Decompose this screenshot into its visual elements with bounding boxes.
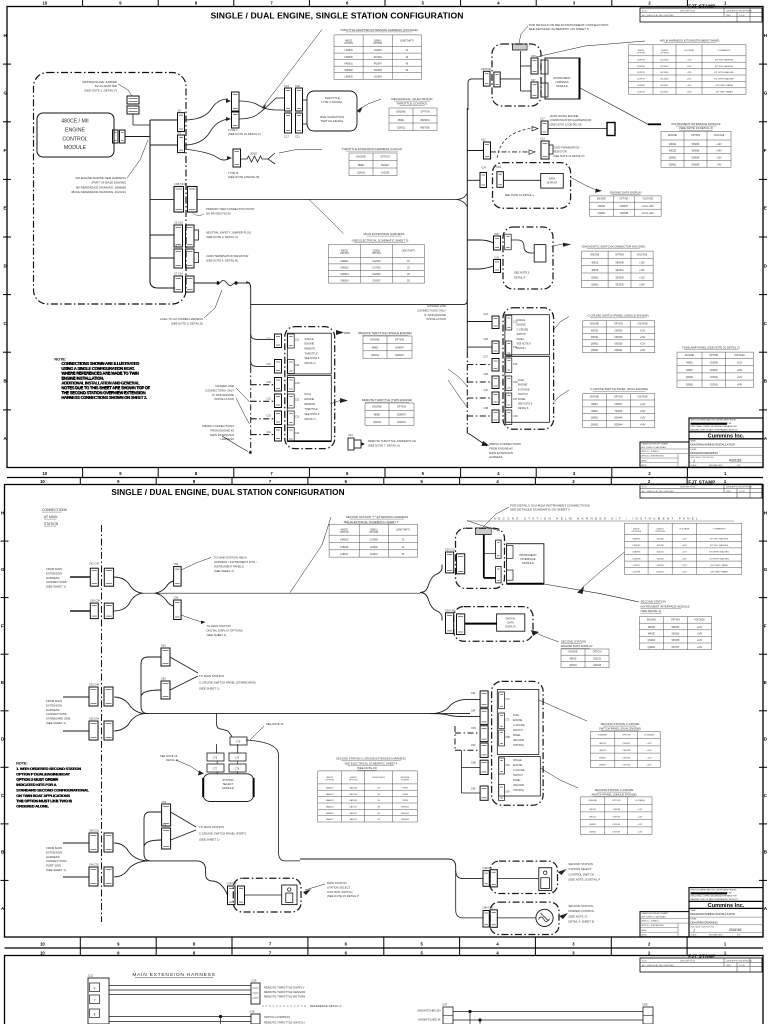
svg-text:BC2051: BC2051	[661, 85, 670, 87]
svg-text:OPTION: OPTION	[380, 155, 389, 158]
svg-text:5AB032: 5AB032	[345, 69, 354, 72]
svg-text:C26 C54: C26 C54	[89, 718, 99, 721]
split to C52/C56	[155, 581, 174, 606]
svg-text:DESCRIPTION: DESCRIPTION	[680, 961, 695, 963]
resistor zigzag	[241, 156, 267, 162]
svg-text:INSTRUMENT INTERFACE MODULE: INSTRUMENT INTERFACE MODULE	[641, 604, 690, 608]
svg-text:E02024: E02024	[395, 354, 404, 357]
svg-text:APVD J.L. SOMELS: APVD J.L. SOMELS	[642, 920, 660, 923]
svg-text:C27: C27	[484, 356, 489, 359]
svg-text:C6B: C6B	[505, 737, 510, 739]
svg-text:REMOTE THROTTLE SENSOR: REMOTE THROTTLE SENSOR	[264, 990, 305, 994]
svg-text:(SEE SHEET 1): (SEE SHEET 1)	[214, 569, 234, 573]
svg-text:INSTRUMENT: INSTRUMENT	[519, 553, 537, 557]
merge to bus y863	[114, 843, 147, 877]
svg-text:MANUFACTURE OR SALE OF APPARAT: MANUFACTURE OR SALE OF APPARATUS WITHOUT	[691, 428, 739, 431]
svg-text:OPTION: OPTION	[614, 324, 623, 326]
svg-text:5A2048: 5A2048	[374, 69, 383, 72]
svg-text:KIT WITH GAUGES: KIT WITH GAUGES	[709, 551, 729, 554]
wire into C44	[70, 610, 90, 612]
svg-text:LENGTH(FT): LENGTH(FT)	[402, 251, 416, 253]
merge wires pairs to bus y593	[114, 577, 143, 611]
svg-text:HARNESS CONNECTIONS SHOWN ON S: HARNESS CONNECTIONS SHOWN ON SHEET 2.	[62, 395, 148, 400]
svg-text:LAB027: LAB027	[326, 818, 335, 821]
svg-text:DATE/APPROVED/EFFDMA: DATE/APPROVED/EFFDMA	[726, 486, 752, 489]
svg-text:C58: C58	[161, 678, 166, 681]
diag inner connector	[505, 234, 512, 250]
svg-text:ENGINE: ENGINE	[590, 396, 599, 398]
svg-text:DETAIL H: DETAIL H	[305, 418, 316, 421]
svg-text:FROM ENGINE #2: FROM ENGINE #2	[210, 428, 234, 432]
svg-text:VOLTAGE: VOLTAGE	[635, 799, 646, 802]
svg-text:CA2004: CA2004	[372, 260, 381, 263]
svg-text:PANEL: PANEL	[513, 779, 521, 782]
primary OEM connection pair	[174, 187, 184, 213]
bus y863 to station select	[147, 860, 198, 862]
j1939 termination pair	[174, 249, 183, 268]
svg-text:WEN031: WEN031	[420, 119, 430, 122]
svg-text:E: E	[4, 206, 7, 211]
title block - left approval box	[640, 912, 689, 937]
svg-text:CA7044: CA7044	[349, 793, 358, 796]
svg-text:THROTTLE CONTROL: THROTTLE CONTROL	[396, 102, 428, 106]
svg-text:(SEE SHEET 1): (SEE SHEET 1)	[199, 838, 220, 842]
svg-text:C34: C34	[348, 433, 353, 437]
svg-text:C0379: C0379	[633, 565, 640, 567]
svg-text:HARNESS / INSTRUMENT KITS /: HARNESS / INSTRUMENT KITS /	[214, 560, 257, 564]
svg-text:ENGINE: ENGINE	[396, 110, 406, 113]
svg-text:480CE: 480CE	[591, 263, 598, 265]
svg-text:ENGINE: ENGINE	[588, 800, 597, 802]
svg-text:QSM11: QSM11	[589, 831, 597, 833]
leader from adapter table label to wire	[262, 30, 322, 109]
table - instrument interface module	[661, 131, 731, 167]
svg-text:480E1: 480E1	[591, 404, 598, 406]
engine boundary dash-dot box	[34, 73, 187, 305]
wire C8 stub	[150, 119, 177, 121]
svg-text:ORDERED ALONE.: ORDERED ALONE.	[16, 804, 49, 809]
svg-text:J: J	[693, 459, 695, 463]
svg-text:(SECOND: (SECOND	[513, 739, 524, 742]
svg-text:FAB031: FAB031	[345, 62, 354, 65]
svg-text:+12 & +24V: +12 & +24V	[642, 213, 655, 215]
svg-text:INTERFACE: INTERFACE	[520, 557, 535, 561]
svg-text:ENGINE: ENGINE	[65, 127, 85, 133]
svg-text:TWIN: TWIN	[402, 794, 408, 796]
helm inner vertical wire	[520, 51, 522, 91]
svg-text:+12V: +12V	[640, 331, 646, 333]
svg-text:C24: C24	[481, 167, 486, 170]
svg-text:C4N: C4N	[513, 416, 518, 418]
wire bus to C26	[467, 266, 493, 269]
svg-text:C6B: C6B	[471, 762, 476, 765]
svg-text:LA2036: LA2036	[381, 171, 390, 174]
select grid C74	[229, 753, 246, 761]
diag inner connector box	[534, 245, 546, 262]
svg-text:SECOND STATION: SECOND STATION	[641, 600, 666, 604]
svg-text:(PART OF BASE ENGINE): (PART OF BASE ENGINE)	[91, 181, 126, 185]
svg-text:C64: C64	[471, 710, 476, 713]
svg-text:U62021: U62021	[614, 350, 623, 352]
svg-text:CONFIG: CONFIG	[401, 780, 410, 782]
svg-text:C02/C08: C02/C08	[481, 68, 491, 71]
svg-text:C71: C71	[505, 720, 510, 722]
title block - proprietary note	[689, 418, 763, 432]
svg-text:MODULE: MODULE	[556, 84, 568, 88]
svg-text:OPTION: OPTION	[349, 780, 358, 782]
svg-text:DIAGRAM DRAWING: DIAGRAM DRAWING	[691, 921, 718, 925]
svg-text:FROM ENGINE #2: FROM ENGINE #2	[489, 446, 513, 450]
svg-text:UNSWITCHED B-: UNSWITCHED B-	[418, 1018, 441, 1022]
svg-text:ENGINE: ENGINE	[685, 355, 694, 357]
right vertical bus dash-dot lower	[466, 352, 468, 433]
second helm inner wire thick	[483, 535, 485, 578]
svg-text:C93231: C93231	[593, 659, 602, 661]
power harness pair C13/C14	[174, 276, 183, 292]
svg-text:OPTION: OPTION	[340, 253, 349, 255]
table - second station interface module	[639, 617, 711, 650]
svg-text:+12V: +12V	[639, 263, 645, 265]
dual engine c-cruise second box	[497, 690, 539, 755]
svg-text:G: G	[764, 567, 768, 572]
svg-text:C77: C77	[213, 768, 218, 771]
svg-text:SINGLE: SINGLE	[401, 819, 410, 821]
svg-text:480E1: 480E1	[686, 363, 693, 365]
svg-text:-24V: -24V	[687, 79, 692, 81]
main bus sheet2 upper	[143, 592, 420, 594]
svg-text:ECN: ECN	[642, 11, 647, 13]
svg-text:10: 10	[40, 951, 45, 956]
svg-text:DIAGNOSTIC SWITCH/CONNECTOR HO: DIAGNOSTIC SWITCH/CONNECTOR HOUSING	[582, 245, 647, 249]
svg-text:REMOTE THROTTLE SWITCH: REMOTE THROTTLE SWITCH	[264, 1021, 305, 1024]
svg-text:SECOND STATION: SECOND STATION	[568, 862, 592, 866]
select box C76	[230, 737, 247, 745]
svg-text:STATION SELECT: STATION SELECT	[568, 867, 592, 871]
svg-text:OM ENGINE MARINE OEM HARNESS: OM ENGINE MARINE OEM HARNESS	[75, 176, 126, 180]
svg-text:UNSWITCHED B+: UNSWITCHED B+	[417, 1009, 441, 1013]
svg-text:CA2007: CA2007	[372, 279, 381, 282]
svg-text:QSM11: QSM11	[397, 126, 406, 129]
svg-text:539038: 539038	[692, 158, 700, 160]
second station c-cruise dash box	[492, 681, 543, 805]
svg-text:SECOND STATION C-CRUISE: SECOND STATION C-CRUISE	[595, 788, 634, 792]
svg-text:536342: 536342	[672, 627, 680, 629]
svg-text:QSM11: QSM11	[598, 213, 606, 215]
svg-text:OPTION: OPTION	[326, 780, 335, 782]
svg-text:OPTION: OPTION	[637, 53, 646, 55]
svg-text:+12V: +12V	[682, 539, 688, 541]
svg-text:C45 C51: C45 C51	[89, 830, 99, 833]
svg-text:KIT W/O GAUGES: KIT W/O GAUGES	[715, 58, 734, 61]
svg-text:ENGINE: ENGINE	[598, 735, 607, 737]
svg-text:+12V: +12V	[716, 144, 722, 146]
svg-text:E: E	[1, 680, 4, 685]
drop to station select right	[246, 740, 300, 861]
title block - proprietary note	[689, 888, 763, 902]
svg-text:OPTION: OPTION	[622, 735, 631, 737]
svg-text:C32: C32	[267, 364, 272, 366]
svg-text:DIGITAL DISPLAY OPTIONS: DIGITAL DISPLAY OPTIONS	[207, 629, 243, 633]
svg-text:537335: 537335	[672, 640, 680, 642]
svg-text:DRAWN BY/CHK APV DRAWN: DRAWN BY/CHK APV DRAWN	[642, 443, 669, 446]
svg-text:+24V: +24V	[737, 384, 743, 386]
dash wire C22 to term resistor	[491, 151, 528, 153]
svg-text:(SEE SHEET 1): (SEE SHEET 1)	[46, 868, 66, 872]
right vertical bus	[466, 108, 468, 352]
svg-text:8: 8	[94, 1013, 96, 1017]
svg-text:C67035: C67035	[612, 831, 620, 833]
svg-text:C-CRUISE SWITCH PANEL (SINGLE: C-CRUISE SWITCH PANEL (SINGLE ENGINE)	[587, 314, 648, 318]
svg-text:C52: C52	[174, 563, 179, 566]
wire bus to helm pair	[468, 79, 521, 110]
svg-text:REMOTE THROTTLE (SINGLE ENGINE: REMOTE THROTTLE (SINGLE ENGINE)	[358, 331, 412, 335]
svg-text:E: E	[764, 680, 767, 685]
sheet 3 frame partial	[5, 956, 764, 1024]
svg-text:THROTTLE: THROTTLE	[305, 352, 319, 355]
svg-text:FROM MAIN: FROM MAIN	[46, 699, 62, 703]
second station select dash box	[490, 861, 557, 893]
svg-text:C03790: C03790	[632, 572, 640, 574]
wire bus to OEM pair	[150, 198, 174, 200]
svg-text:LAB029: LAB029	[345, 49, 354, 52]
svg-text:+12V: +12V	[716, 158, 722, 160]
svg-text:LAB025: LAB025	[326, 806, 335, 809]
svg-text:162042: 162042	[656, 558, 664, 560]
svg-text:MODULE: MODULE	[522, 561, 534, 565]
select grid C78	[229, 764, 246, 772]
svg-text:INSTALLATION: INSTALLATION	[215, 397, 234, 401]
svg-text:CA2065: CA2065	[370, 539, 379, 542]
svg-text:IF TWIN ENGINE: IF TWIN ENGINE	[424, 313, 446, 317]
svg-text:C92328: C92328	[593, 665, 602, 667]
svg-text:QSM11: QSM11	[686, 377, 694, 379]
svg-text:THROTTLE EXTENSION HARNESS (0-: THROTTLE EXTENSION HARNESS (0-20mA)	[342, 147, 402, 151]
svg-text:QSM11: QSM11	[669, 164, 677, 166]
svg-text:480CE: 480CE	[648, 634, 655, 636]
svg-text:4316163: 4316163	[729, 928, 742, 932]
svg-text:COMMENTS: COMMENTS	[718, 50, 731, 52]
svg-text:CONNECTIONS: CONNECTIONS	[46, 580, 67, 584]
svg-text:C07: C07	[531, 79, 536, 82]
svg-text:CX8 CX11: CX8 CX11	[174, 182, 187, 186]
svg-text:+24V: +24V	[637, 831, 643, 833]
svg-text:BC2028: BC2028	[661, 59, 670, 61]
svg-text:+12V: +12V	[646, 757, 652, 759]
svg-text:QSM11: QSM11	[591, 418, 599, 420]
svg-text:+12V: +12V	[640, 404, 646, 406]
svg-text:-24V INST. PANEL: -24V INST. PANEL	[715, 90, 734, 93]
svg-text:LAB017: LAB017	[340, 553, 349, 556]
svg-text:C65: C65	[471, 788, 476, 791]
svg-text:-24V INST. PANEL: -24V INST. PANEL	[710, 571, 729, 574]
svg-text:DASHED LINE: DASHED LINE	[215, 384, 234, 388]
svg-text:+24V: +24V	[640, 425, 646, 427]
svg-text:+12V: +12V	[639, 277, 645, 279]
c-cruise inner connectors	[506, 316, 512, 331]
svg-text:FA7046: FA7046	[374, 56, 383, 59]
svg-text:480E7: 480E7	[686, 370, 693, 372]
svg-text:WIRING CONNECTIONS: WIRING CONNECTIONS	[202, 424, 234, 428]
svg-text:C60: C60	[505, 765, 510, 767]
svg-text:VOLTAGE: VOLTAGE	[694, 619, 705, 622]
svg-text:9: 9	[94, 987, 96, 991]
leaders dashed note left	[236, 388, 250, 402]
svg-text:APV JOHN P.O. SALTZMAN: APV JOHN P.O. SALTZMAN	[642, 446, 667, 449]
svg-text:KIT W/O GAUGES: KIT W/O GAUGES	[710, 538, 729, 541]
svg-text:T09618: T09618	[615, 411, 624, 413]
svg-text:SINGLE: SINGLE	[401, 813, 410, 815]
svg-text:+24V: +24V	[737, 370, 743, 372]
svg-text:CONNECTIONS: CONNECTIONS	[46, 712, 67, 716]
svg-text:SEN040: SEN040	[615, 263, 624, 265]
svg-text:SINGLE / DUAL ENGINE, DUAL STA: SINGLE / DUAL ENGINE, DUAL STATION CONFI…	[111, 488, 344, 497]
svg-text:OPTION: OPTION	[395, 338, 404, 341]
svg-text:TO MAIN STATION: TO MAIN STATION	[199, 674, 224, 678]
svg-text:+24V: +24V	[640, 350, 646, 352]
svg-text:REMOTE: REMOTE	[305, 403, 316, 406]
svg-text:OPTION: OPTION	[420, 110, 429, 113]
svg-text:MAIN EXTENSION HARNESS: MAIN EXTENSION HARNESS	[363, 232, 404, 236]
svg-text:C32: C32	[295, 400, 300, 402]
j1939 nub	[194, 253, 199, 263]
svg-text:(SEE NOTE 22,DETAIL A): (SEE NOTE 22,DETAIL A)	[228, 132, 261, 136]
leader OEM harness	[127, 140, 148, 178]
svg-text:CAB013: CAB013	[340, 273, 349, 276]
leader from helm box to for-details note	[536, 41, 645, 57]
svg-text:TO MAIN STATION HELM: TO MAIN STATION HELM	[214, 556, 247, 560]
wire C9 to resistor branch	[184, 149, 230, 160]
svg-text:LA2092: LA2092	[370, 546, 379, 549]
svg-text:DESCRIPTION: DESCRIPTION	[680, 11, 695, 13]
arrow into C15	[226, 99, 231, 103]
digital data display box	[497, 614, 525, 631]
svg-text:SWITCH SIGNAL: SWITCH SIGNAL	[321, 119, 344, 123]
svg-text:C28: C28	[484, 338, 489, 341]
neutral safety jumper pair	[174, 225, 183, 247]
master/slave jumper connector	[127, 96, 139, 104]
svg-text:SEE DETAILED SCHEMATIC ON SHEE: SEE DETAILED SCHEMATIC ON SHEET 5	[529, 27, 589, 31]
svg-text:DUAL: DUAL	[305, 393, 312, 396]
svg-text:OPTION: OPTION	[344, 43, 353, 45]
svg-text:C03P32: C03P32	[637, 59, 646, 61]
svg-text:INSTRUMENT: INSTRUMENT	[553, 76, 571, 80]
svg-text:CA2040: CA2040	[349, 787, 358, 790]
svg-text:STATION: STATION	[44, 522, 59, 526]
svg-text:VOLTAGE: VOLTAGE	[734, 354, 745, 357]
svg-text:F: F	[1, 623, 4, 628]
data display dash box	[493, 163, 571, 209]
svg-text:TO MAIN STATION: TO MAIN STATION	[207, 624, 231, 628]
svg-text:480CE: 480CE	[591, 337, 598, 339]
station select switch symbol	[282, 885, 297, 905]
svg-text:OPTION: OPTION	[593, 652, 602, 654]
svg-text:ENGINE: ENGINE	[513, 764, 523, 767]
svg-text:PANEL: PANEL	[518, 398, 526, 401]
svg-text:C6B: C6B	[162, 825, 167, 828]
svg-text:PORT SIDE: PORT SIDE	[46, 864, 61, 868]
svg-text:DETAIL R: DETAIL R	[514, 276, 526, 280]
svg-text:IF TWIN ENGINE: IF TWIN ENGINE	[212, 393, 234, 397]
svg-text:+12V: +12V	[737, 363, 743, 365]
svg-text:-24V: -24V	[717, 164, 722, 166]
svg-text:CONNECTIONS ONLY: CONNECTIONS ONLY	[417, 308, 446, 312]
svg-text:C0AP34: C0AP34	[632, 538, 641, 541]
svg-text:QSM11: QSM11	[648, 647, 656, 649]
svg-text:G: G	[1, 567, 5, 572]
svg-text:SEE NOTE 9: SEE NOTE 9	[514, 271, 530, 275]
title block - drawing name rows	[689, 908, 763, 936]
connector group C19/C18 upper pair	[285, 88, 292, 111]
svg-text:WIRING CONNECTIONS: WIRING CONNECTIONS	[489, 442, 521, 446]
svg-text:C03P76: C03P76	[637, 72, 646, 74]
sheet border frame	[7, 7, 763, 468]
svg-text:EXTENSION: EXTENSION	[46, 850, 62, 854]
wire bus to second helm pair	[420, 565, 442, 593]
svg-text:ENGINE: ENGINE	[518, 384, 528, 387]
svg-text:539066: 539066	[692, 151, 700, 153]
svg-text:(SEE NOTE 15,DETAIL P: (SEE NOTE 15,DETAIL P	[568, 878, 600, 882]
svg-text:(SEE NOTE 13,DETAIL 3): (SEE NOTE 13,DETAIL 3)	[679, 126, 713, 130]
svg-text:ENGINE: ENGINE	[372, 405, 382, 408]
svg-text:APVD J.L. SOMELS: APVD J.L. SOMELS	[642, 450, 660, 453]
second station helm dash box	[456, 528, 505, 588]
svg-text:CONNECTIONS ONLY: CONNECTIONS ONLY	[205, 388, 234, 392]
svg-text:C68039: C68039	[612, 816, 620, 818]
connector C11 body	[88, 978, 109, 1024]
dash-dot stubs to remote throttle rows 3-6	[251, 384, 275, 386]
svg-text:COMMUNICATION HARNESS(S#): COMMUNICATION HARNESS(S#)	[550, 118, 592, 122]
svg-text:REMOTE THROTTLE RETURN: REMOTE THROTTLE RETURN	[264, 995, 305, 999]
svg-text:QSM11: QSM11	[591, 277, 599, 279]
svg-text:537337: 537337	[672, 647, 680, 649]
svg-text:(SEE SHEET 1): (SEE SHEET 1)	[46, 721, 66, 725]
wire bus to j1939 term	[150, 257, 174, 259]
helm inner connector C06	[531, 58, 538, 74]
wire jumper to bus	[132, 114, 134, 125]
svg-text:C0N37B: C0N37B	[632, 558, 641, 560]
svg-text:C3N: C3N	[513, 382, 518, 384]
feed wires C66/C58	[141, 657, 161, 714]
svg-text:APVD: APVD	[642, 464, 648, 467]
svg-text:LA2054: LA2054	[374, 76, 383, 79]
svg-text:+24V: +24V	[716, 151, 722, 153]
svg-text:480E1: 480E1	[398, 119, 406, 122]
svg-text:QSM11: QSM11	[357, 171, 366, 174]
svg-text:U62026: U62026	[614, 344, 623, 346]
svg-text:OPTION: OPTION	[612, 800, 621, 802]
throttle type 1 signal box	[307, 91, 357, 131]
long diagonal leader 2	[582, 552, 625, 588]
main engine bus vertical	[149, 120, 151, 281]
svg-text:C33: C33	[295, 417, 300, 419]
svg-text:(60 PIN DEUTSCH): (60 PIN DEUTSCH)	[206, 212, 231, 216]
connector C22 single	[484, 142, 491, 159]
svg-text:539060: 539060	[692, 144, 700, 146]
svg-text:CONNECTIONS: CONNECTIONS	[46, 859, 67, 863]
svg-text:U69226: U69226	[614, 337, 623, 339]
main horizontal bus lower	[251, 304, 463, 306]
svg-text:G: G	[4, 90, 8, 95]
svg-text:(SEE SHEET 1): (SEE SHEET 1)	[46, 585, 66, 589]
svg-text:+24V: +24V	[640, 411, 646, 413]
svg-text:INSTRUMENT PANELS: INSTRUMENT PANELS	[214, 565, 244, 569]
svg-text:ENGINE: ENGINE	[569, 652, 578, 654]
svg-text:MII REFERENCE DRAWING: 2866868: MII REFERENCE DRAWING: 2866868	[76, 185, 127, 189]
svg-text:SELECT: SELECT	[223, 782, 234, 786]
svg-text:+24V: +24V	[682, 545, 688, 547]
svg-text:QSM11: QSM11	[599, 765, 607, 767]
svg-text:SWITCH: SWITCH	[513, 774, 523, 777]
